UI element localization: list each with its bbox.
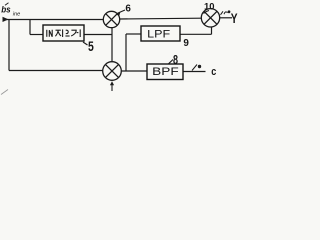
svg-text:10: 10 <box>204 1 215 12</box>
svg-text:BPF: BPF <box>152 66 179 78</box>
svg-text:6: 6 <box>125 4 131 15</box>
svg-text:Y: Y <box>231 11 238 26</box>
svg-text:LPF: LPF <box>147 29 170 41</box>
svg-text:c: c <box>211 66 216 78</box>
svg-text:ine: ine <box>13 12 20 18</box>
svg-text:5: 5 <box>88 39 94 54</box>
svg-text:bs: bs <box>1 5 11 16</box>
svg-text:8: 8 <box>173 53 178 67</box>
svg-text:9: 9 <box>183 38 189 49</box>
